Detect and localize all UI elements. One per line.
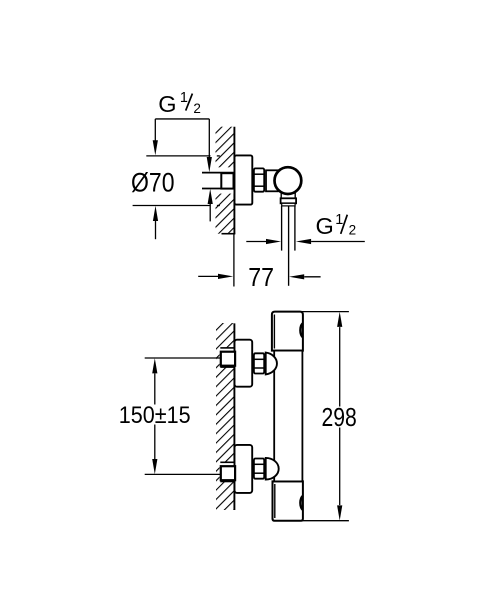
pipe lower arrow (G1/2) [208, 189, 213, 222]
hose neck below knob [281, 190, 295, 198]
dimension 150±15 [119, 358, 221, 474]
top hex nut (lower view) [254, 353, 264, 373]
body bottom cap [273, 481, 303, 520]
dimension Ø70 extension lines [133, 156, 220, 206]
bottom wall square nut (lower view) [221, 466, 235, 480]
svg-text:150±15: 150±15 [119, 402, 191, 429]
dimension 298 [301, 312, 357, 521]
svg-text:G: G [158, 91, 176, 117]
top crescent (cartridge cap edge) [300, 323, 303, 337]
bottom escutcheon (lower view) [235, 445, 253, 493]
hose nut band [281, 198, 297, 203]
leader bracket G1/2 top [153, 119, 212, 172]
wall hatch (side view) [216, 127, 234, 234]
dimension 77 [198, 234, 320, 293]
bottom hole in wall [220, 462, 235, 481]
escutcheon (side view) [235, 155, 253, 204]
dimension G1/2 hose arrows [246, 239, 364, 244]
svg-text:2: 2 [349, 223, 357, 238]
bottom crescent (cartridge cap edge) [300, 496, 303, 510]
top ball joint [266, 353, 277, 375]
svg-text:1: 1 [335, 212, 343, 228]
union hex nut (side view) [254, 168, 264, 191]
bottom hex nut (lower view) [254, 459, 264, 479]
supply pipe stub [202, 173, 235, 189]
wall hole (side view) [214, 167, 234, 193]
svg-text:298: 298 [322, 402, 357, 432]
svg-text:1: 1 [180, 90, 188, 106]
wall hatch (lower view) [216, 323, 234, 510]
shower hose lines [282, 206, 295, 286]
hose collar [282, 203, 295, 206]
wall surface line (lower view) [233, 323, 235, 510]
top wall square nut (lower view) [221, 352, 235, 366]
wall surface line (side view) [233, 127, 235, 234]
wall bottom edge (side view) [222, 233, 236, 235]
bottom ball joint [266, 458, 279, 480]
top escutcheon (lower view) [235, 340, 253, 387]
label Ø70 [131, 167, 175, 197]
svg-text:G: G [316, 213, 334, 239]
body top cap [272, 312, 303, 351]
label G1/2 top [158, 90, 201, 117]
body middle bar [274, 351, 302, 482]
svg-text:77: 77 [248, 262, 274, 292]
dimension Ø70 lower arrow [153, 206, 158, 239]
wall union square nut (side view) [221, 173, 233, 188]
thermostat knob circle [275, 167, 302, 194]
top hole in wall [220, 348, 235, 367]
valve body block (side view) [266, 170, 278, 191]
svg-text:Ø70: Ø70 [131, 167, 175, 197]
label G1/2 right [316, 212, 357, 239]
svg-text:2: 2 [193, 101, 201, 116]
